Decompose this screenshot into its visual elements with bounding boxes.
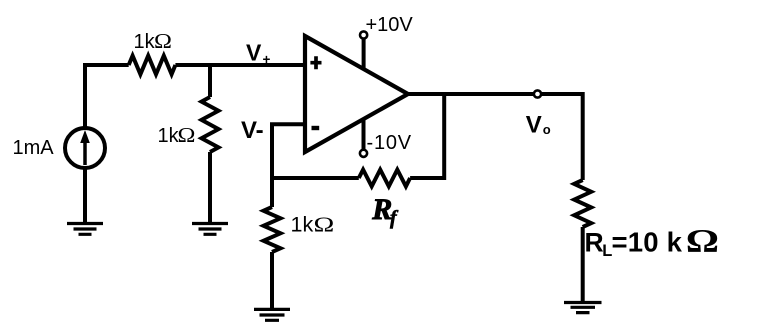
svg-text:V: V: [246, 40, 262, 66]
svg-text:+10V: +10V: [366, 14, 414, 36]
svg-text:-10V: -10V: [367, 132, 412, 154]
svg-text:+: +: [263, 52, 271, 67]
svg-text:Ω: Ω: [154, 29, 172, 52]
svg-text:Ω: Ω: [314, 213, 335, 236]
svg-text:1k: 1k: [291, 213, 314, 237]
svg-text:Ω: Ω: [178, 123, 196, 146]
svg-text:o: o: [543, 122, 551, 137]
svg-text:=10 k: =10 k: [612, 227, 683, 258]
svg-text:V-: V-: [241, 117, 264, 144]
svg-text:Ω: Ω: [686, 224, 719, 260]
svg-text:1k: 1k: [134, 31, 156, 53]
svg-text:V: V: [526, 111, 542, 138]
svg-text:1k: 1k: [158, 125, 180, 147]
svg-text:R: R: [585, 228, 604, 258]
svg-text:1mA: 1mA: [13, 137, 55, 159]
